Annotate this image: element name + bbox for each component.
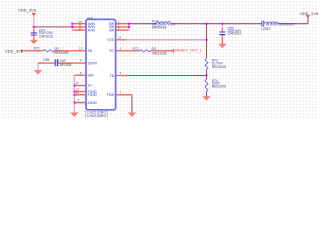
svg-text:VOS: VOS [107,38,114,42]
svg-text:SW: SW [109,28,114,32]
svg-text:AVIN: AVIN [88,28,96,32]
svg-text:L2012: L2012 [261,27,270,31]
svg-text:0R: 0R [152,47,157,51]
svg-text:RES1005: RES1005 [54,51,68,55]
svg-text:SS/TR: SS/TR [88,61,98,65]
svg-text:RES1005: RES1005 [153,51,167,55]
svg-text:16: 16 [76,91,80,95]
svg-text:R71: R71 [34,47,40,51]
svg-text:VDD_3V3: VDD_3V3 [5,49,24,54]
svg-text:R72: R72 [133,47,139,51]
svg-text:CAP1005: CAP1005 [57,63,71,67]
svg-text:/RESET_OUT_L: /RESET_OUT_L [174,49,202,53]
svg-text:TLV62130RGT: TLV62130RGT [85,114,109,118]
svg-text:CAP2012: CAP2012 [228,32,242,36]
svg-text:13: 13 [79,46,83,50]
svg-text:U18: U18 [87,16,93,20]
svg-text:FB: FB [110,74,114,78]
svg-text:14: 14 [118,35,122,39]
svg-text:VDD_3V9: VDD_3V9 [18,8,37,13]
svg-text:VDD_1V8: VDD_1V8 [300,11,319,16]
svg-text:17: 17 [75,81,79,85]
svg-text:DEF: DEF [88,74,94,78]
svg-text:BLM18PG220SN1D: BLM18PG220SN1D [266,23,295,27]
svg-text:AGND: AGND [88,101,98,105]
svg-text:12: 12 [78,26,82,30]
svg-text:CAP3216: CAP3216 [39,34,53,38]
svg-text:PGND: PGND [88,93,98,97]
svg-text:FSW: FSW [107,93,114,97]
svg-text:C55: C55 [43,58,49,62]
svg-text:EN: EN [88,49,93,53]
svg-text:RES1005: RES1005 [212,85,226,89]
svg-text:SRN5018: SRN5018 [152,25,167,29]
svg-text:RES1005: RES1005 [212,65,226,69]
svg-text:TP: TP [88,84,92,88]
svg-text:PG: PG [109,49,114,53]
